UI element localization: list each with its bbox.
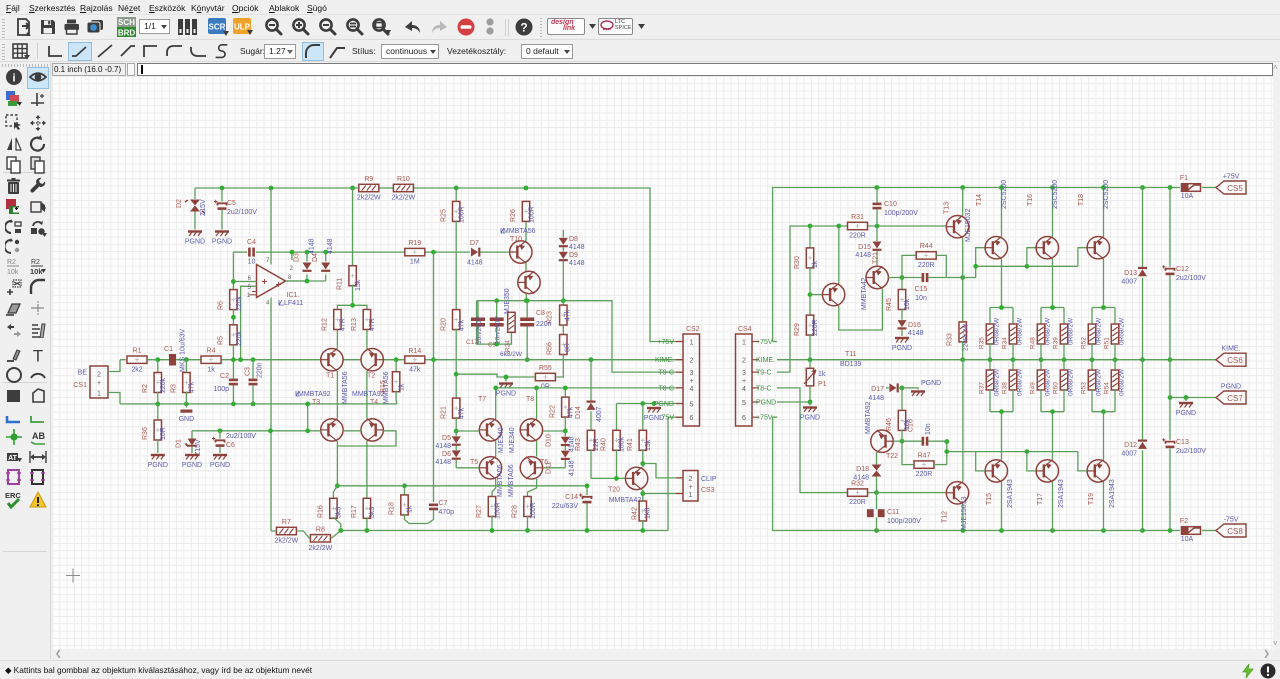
- resistor R33: [947, 278, 970, 360]
- ground PGND on line: [644, 404, 664, 423]
- wire NPN base bus: [963, 248, 1087, 278]
- resistor R39: [1052, 317, 1074, 360]
- flag CS6 KIME: [1216, 346, 1246, 367]
- transistor T10 MMBTA56: [501, 228, 536, 263]
- svg-text:i: i: [12, 73, 15, 85]
- wire PNP base bus: [944, 439, 1087, 471]
- transistor T17 2SA1943: [1036, 412, 1065, 531]
- ground PGND near CS7: [1176, 398, 1196, 418]
- resistor R32: [848, 481, 868, 507]
- transistor T16 2SC5200: [1027, 180, 1059, 308]
- wire op-amp V+ pin7: [270, 188, 272, 265]
- op-amp IC1 LF411: [231, 252, 307, 531]
- wire lower input line: [120, 403, 397, 405]
- capacitor C10: [873, 188, 919, 227]
- diode D16: [898, 320, 924, 337]
- wire T11 collector: [838, 226, 840, 284]
- resistor R50: [1052, 360, 1074, 412]
- capacitor C4: [247, 239, 256, 266]
- svg-text:ERC: ERC: [5, 491, 21, 500]
- resistor R28: [512, 479, 538, 531]
- wire lower to base line: [307, 404, 309, 431]
- resistor R47: [902, 441, 947, 478]
- capacitor C8: [520, 301, 551, 362]
- wire op-amp output: [286, 275, 326, 284]
- resistor R4: [201, 348, 221, 374]
- capacitor C2: [213, 373, 237, 404]
- wire bank R48 R39 top bus: [1041, 305, 1064, 325]
- wire T22 node: [893, 439, 904, 444]
- resistor R10: [392, 176, 416, 202]
- resistor R37: [978, 360, 1000, 412]
- resistor R53: [1080, 360, 1102, 412]
- resistor R36: [142, 404, 167, 453]
- capacitor C7: [429, 500, 454, 516]
- node lower junctions: [155, 402, 310, 407]
- resistor R12: [322, 310, 347, 332]
- resistor R46: [886, 386, 911, 442]
- capacitor C15: [902, 273, 946, 302]
- diode D5: [435, 431, 460, 450]
- wire KIME line: [431, 357, 683, 362]
- transistor T9 MJE350: [504, 271, 540, 320]
- ground GND: [179, 404, 195, 423]
- diode D8: [559, 230, 585, 251]
- diode D10: [546, 431, 576, 452]
- connector CS2: [654, 326, 700, 426]
- wire T9-C drive line: [777, 224, 946, 373]
- diode D7: [467, 240, 483, 267]
- transistor T7 MJE340: [478, 396, 505, 453]
- diode D17: [868, 383, 913, 402]
- diode D14: [575, 360, 603, 432]
- svg-text:BRD: BRD: [118, 29, 136, 38]
- resistor R15: [380, 360, 406, 404]
- wire -75V rail right: [773, 417, 1180, 530]
- wire bank R35 R34 top bus: [990, 305, 1013, 325]
- transistor T22 MMBTA92: [865, 401, 898, 460]
- svg-text:10k: 10k: [7, 269, 19, 275]
- resistor R6: [218, 290, 244, 311]
- capacitor C9: [488, 301, 504, 349]
- resistor R31: [848, 214, 868, 240]
- resistor R22: [550, 386, 575, 434]
- resistor R17: [351, 498, 376, 530]
- wire C15 to T13 emitter: [946, 275, 965, 280]
- transistor T4 MMBTA92: [352, 391, 385, 441]
- wire +75V rail right: [773, 188, 1180, 342]
- capacitor C14: [552, 486, 592, 531]
- trimmer P1: [804, 368, 827, 404]
- transistor T15 2SA1943: [985, 412, 1014, 531]
- connector CS1 BE: [73, 360, 120, 404]
- capacitor C13: [1162, 398, 1206, 531]
- wire T3 T4 base line: [192, 428, 396, 446]
- resistor R11: [337, 188, 363, 305]
- wire CS2 pin6: [668, 417, 683, 530]
- wire T11 emitter to T21: [839, 289, 883, 330]
- wire T9 emitter to bus: [525, 293, 527, 300]
- resistor R35: [978, 317, 1000, 360]
- transistor T2 MMBTA56: [361, 349, 390, 405]
- resistor R18: [389, 486, 434, 524]
- transistor T3 MMBTA92: [296, 391, 343, 441]
- resistor R13: [351, 310, 376, 332]
- resistor R52: [1080, 317, 1102, 360]
- resistor R30: [794, 226, 819, 316]
- origin cross mark: [66, 569, 80, 583]
- transistor T21 MMBTA42: [861, 252, 888, 310]
- transistor T5 MMBTA06: [470, 441, 504, 497]
- resistor R5: [218, 325, 244, 379]
- resistor R21: [441, 329, 466, 434]
- capacitor C16: [902, 419, 947, 446]
- resistor R51: [1103, 317, 1125, 360]
- capacitor C1: [164, 328, 186, 372]
- capacitor C3: [245, 360, 264, 404]
- resistor R19: [405, 240, 425, 266]
- wire feedback vertical: [433, 252, 435, 502]
- resistor R43: [575, 430, 600, 478]
- diode D3: [294, 238, 316, 272]
- fuse F1: [1180, 175, 1216, 200]
- transistor T6 MMBTA06: [508, 441, 548, 497]
- capacitor C12: [1162, 188, 1206, 398]
- wire T3 T4 collector drops: [337, 441, 367, 499]
- resistor R54: [1103, 360, 1125, 412]
- resistor R27: [476, 479, 502, 531]
- diode D15: [855, 226, 881, 266]
- wire T10 to T9: [525, 263, 527, 272]
- ground PGND near R55: [496, 384, 516, 398]
- wire T8-C line: [493, 386, 683, 419]
- svg-text:T: T: [33, 347, 43, 365]
- resistor R20: [441, 220, 466, 331]
- resistor R8: [297, 526, 340, 552]
- resistor R23: [547, 305, 572, 335]
- transistor T1 MMBTA56: [321, 349, 349, 405]
- resistor R3: [171, 360, 196, 404]
- wire CS4 pin5 PGND: [777, 402, 810, 406]
- wire PGND line right: [1168, 395, 1216, 400]
- wire +75V top rail: [195, 188, 683, 342]
- node -75V rail junctions: [874, 528, 1172, 533]
- resistor R42: [632, 501, 652, 531]
- transistor T20 MMBTA42: [608, 461, 683, 504]
- resistor R16: [318, 486, 343, 531]
- resistor R55: [535, 365, 555, 391]
- transistor T12 MJE15033: [942, 360, 969, 531]
- zener diode D1: [176, 431, 203, 456]
- wire T1 T2 collectors: [337, 371, 367, 419]
- wire T8-C drive line lower: [777, 388, 946, 495]
- wire C17 C9 R24 loop: [477, 301, 512, 347]
- svg-text:AB: AB: [32, 431, 45, 441]
- resistor R49: [1029, 360, 1051, 412]
- node input junctions: [155, 357, 398, 362]
- capacitor C11: [867, 493, 921, 531]
- svg-text:R2: R2: [31, 259, 40, 266]
- node KIME junctions: [808, 357, 1173, 362]
- wire bank R53 R54 bottom bus: [1092, 409, 1115, 414]
- ground PGND under C6: [210, 455, 230, 469]
- wire T20 emitter to CS3 pin1: [640, 490, 683, 502]
- ground PGND near D17: [911, 380, 941, 396]
- diode D13: [1121, 188, 1147, 360]
- transistor T13 MJE15032: [944, 188, 973, 278]
- diode D18: [853, 452, 881, 492]
- connector CS3 CLIP: [676, 471, 717, 502]
- resistor R2: [142, 360, 167, 404]
- resistor R56: [547, 335, 572, 378]
- flag CS7 PGND: [1216, 384, 1246, 405]
- resistor R38: [1001, 360, 1023, 412]
- wire bank R52 R51 top bus: [1092, 305, 1115, 325]
- resistor R26: [510, 201, 536, 240]
- resistor R41: [627, 404, 652, 468]
- wire C4 / R19 / D7 line: [233, 252, 508, 260]
- svg-text:?: ?: [520, 21, 527, 35]
- svg-text:AT: AT: [8, 455, 18, 462]
- wire T9-C bus: [477, 298, 683, 372]
- ground PGND under R36: [148, 455, 168, 469]
- resistor R29: [794, 315, 819, 368]
- flag CS5 +75V: [1216, 174, 1246, 195]
- resistor R48: [1029, 317, 1051, 360]
- transistor T18 2SC5200: [1078, 180, 1110, 308]
- ground PGND under D2: [185, 232, 205, 246]
- diode D11: [546, 446, 576, 476]
- transistor T8 MJE340: [509, 396, 543, 453]
- capacitor C5: [214, 188, 257, 230]
- wire R55 to PGND tap: [456, 374, 534, 381]
- wire bank R49 R50 bottom bus: [1041, 409, 1064, 414]
- wire PGND line: [617, 401, 684, 406]
- svg-text:SCR: SCR: [209, 23, 226, 32]
- ground PGND under C5: [212, 232, 232, 246]
- resistor R14: [405, 348, 425, 374]
- diode D12: [1121, 360, 1147, 531]
- transistor T19 2SA1943: [1087, 412, 1116, 531]
- wire collector line A: [335, 483, 589, 488]
- ground PGND under D16: [892, 338, 912, 352]
- transistor T11 BD139: [810, 283, 862, 368]
- capacitor C17: [466, 301, 485, 346]
- resistor R34: [1001, 317, 1023, 360]
- wire T20 base line: [591, 476, 625, 481]
- wire KIME line right: [777, 359, 1216, 361]
- ground PGND under D1: [182, 455, 202, 469]
- wire T21 emitter node: [888, 275, 904, 280]
- fuse F2: [1180, 518, 1216, 543]
- svg-text:10k: 10k: [30, 267, 43, 275]
- wire T5 base: [456, 467, 479, 469]
- wire -75V bottom rail: [338, 528, 668, 533]
- wire R12 R13 bus: [337, 303, 367, 349]
- node +75V junctions: [220, 186, 529, 191]
- diode D4: [312, 238, 334, 272]
- wire R6-R5 tap: [231, 309, 236, 326]
- diode D6: [435, 446, 460, 468]
- transistor T14 2SC5200: [976, 180, 1008, 308]
- wire input line: [120, 359, 434, 361]
- flag CS8 -75V: [1216, 517, 1246, 538]
- wire T7 T8 bases: [456, 430, 565, 432]
- diode D9: [559, 247, 585, 306]
- node rail junctions: [874, 185, 1172, 190]
- resistor R24: [500, 312, 523, 358]
- resistor R44: [902, 243, 946, 278]
- resistor R9: [357, 176, 381, 202]
- zener diode D2: [176, 188, 207, 230]
- resistor R1: [127, 348, 147, 374]
- capacitor C6: [212, 431, 256, 453]
- ground PGND under P1: [800, 408, 820, 422]
- resistor R7: [271, 519, 299, 545]
- wire bank R37 R38 bottom bus: [990, 409, 1013, 414]
- resistor R25: [441, 188, 466, 223]
- wire T6 base: [543, 467, 565, 469]
- node 252-line junctions: [290, 250, 436, 255]
- svg-text:R2: R2: [7, 259, 16, 266]
- resistor R45: [886, 278, 911, 320]
- connector CS4: [736, 326, 777, 426]
- resistor R40: [601, 404, 626, 479]
- svg-text:SCH: SCH: [118, 18, 135, 27]
